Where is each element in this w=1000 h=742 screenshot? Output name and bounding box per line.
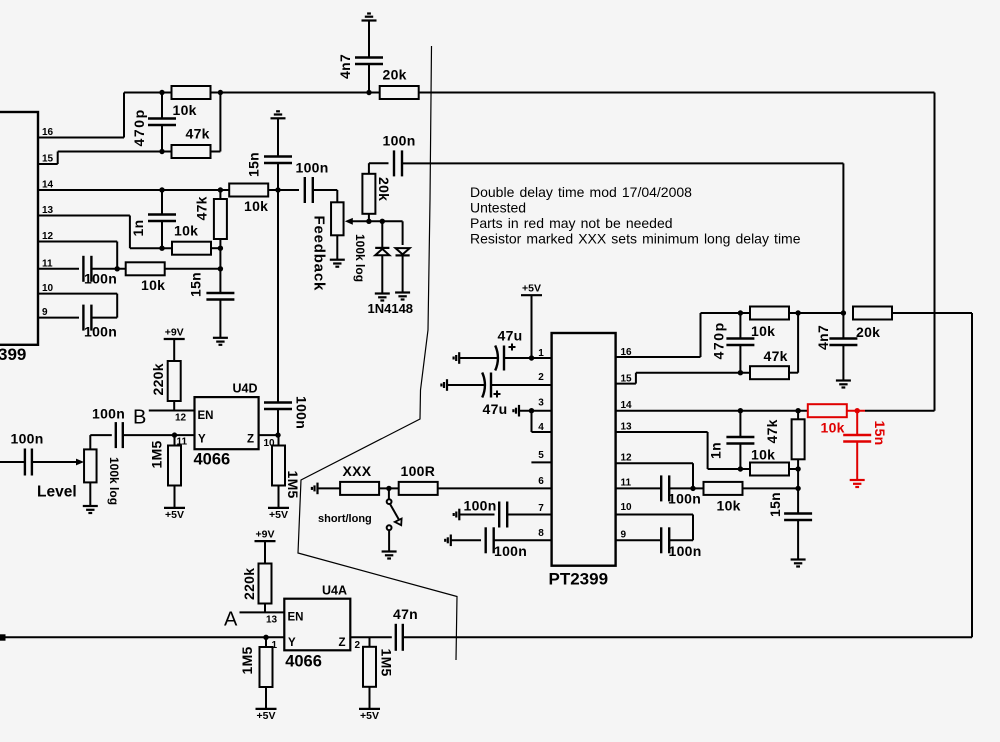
junction 470p bottom right <box>738 370 743 375</box>
svg-text:15n: 15n <box>188 272 204 297</box>
pin label 5 (U1) <box>538 450 544 461</box>
junction 47k bottom / 10k row13 <box>218 246 223 251</box>
svg-text:Z: Z <box>247 434 254 446</box>
svg-text:399: 399 <box>0 345 26 364</box>
capacitor 470p (right) <box>726 339 754 346</box>
capacitor 15n (left column) <box>206 293 234 300</box>
wire diode top row <box>369 221 403 245</box>
wire 1M5 U4D-left stem <box>174 435 176 446</box>
svg-text:15n: 15n <box>767 492 783 517</box>
svg-text:12: 12 <box>175 413 187 424</box>
wire 1M5 U4A-left stem2 <box>265 687 267 709</box>
svg-text:+9V: +9V <box>256 529 275 541</box>
ground pin7 <box>454 509 460 521</box>
wire 470p right stem2 <box>739 345 741 373</box>
power +5V (U4A left) <box>256 709 277 722</box>
wire pin6 <box>438 487 552 489</box>
capacitor 100n (pin9 right) <box>661 527 669 553</box>
svg-text:100n: 100n <box>11 431 44 447</box>
resistor 100R <box>399 463 438 495</box>
ground input pin2 <box>441 379 447 391</box>
wire level pot bottom <box>89 482 91 506</box>
freehand divider line <box>298 46 457 660</box>
svg-text:13: 13 <box>621 422 633 433</box>
svg-text:15n: 15n <box>872 421 888 446</box>
svg-text:Double delay time mod 17/04/20: Double delay time mod 17/04/2008 <box>470 184 692 200</box>
svg-text:15: 15 <box>42 154 54 165</box>
capacitor 100n (pin9 left) <box>83 305 91 331</box>
wire 1M5 U4A-left stem <box>265 637 267 647</box>
label 47u pin2 <box>483 401 508 417</box>
svg-text:10k: 10k <box>141 277 165 293</box>
svg-text:short/long: short/long <box>318 513 372 525</box>
svg-text:Level: Level <box>37 484 77 501</box>
ground 4n7 right <box>836 381 851 388</box>
IC U3 PT2399 partial body <box>0 112 38 345</box>
capacitor 100n (pin8) <box>486 527 494 553</box>
svg-text:10: 10 <box>42 283 54 294</box>
svg-text:1M5: 1M5 <box>149 440 165 468</box>
wire 15n stem top <box>219 269 221 293</box>
wire 10k row488 right <box>743 487 799 489</box>
svg-text:7: 7 <box>538 503 544 514</box>
svg-text:2: 2 <box>538 372 544 383</box>
junction Y/1M5 <box>172 432 177 437</box>
wire 4n7 stem bottom <box>368 64 370 93</box>
resistor 1M5 (U4D left) <box>149 440 182 485</box>
wire 20k stem bottom <box>368 214 370 222</box>
junction Y/1M5 U4A <box>263 635 268 640</box>
junction pin12/cap/10k <box>115 266 120 271</box>
pin label 16 (U1) <box>621 347 633 358</box>
wire pin8 a <box>451 539 481 541</box>
switch short/long <box>387 499 402 530</box>
power +5V (PT2399) <box>521 283 542 296</box>
wire 4n7 right stem <box>842 313 844 339</box>
wire 470p stem bottom <box>161 125 163 152</box>
svg-text:U4D: U4D <box>233 382 258 396</box>
wire pin1 b <box>504 357 552 359</box>
wire 4n7 right stem2 <box>842 345 844 381</box>
wire feedback vertical <box>277 163 279 190</box>
label 100n pin7 <box>464 498 497 514</box>
wire cap to Y pin <box>123 434 194 436</box>
junction wiper/20k/diodes <box>366 219 371 224</box>
svg-text:20k: 20k <box>383 67 407 83</box>
svg-text:100R: 100R <box>401 463 436 479</box>
junction Z/100n/1M5 <box>275 432 280 437</box>
wire pin5 stub <box>531 461 551 463</box>
svg-text:20k: 20k <box>376 177 392 201</box>
pin label 9 (U3) <box>42 307 48 318</box>
capacitor 15n (feedback series) <box>264 157 292 164</box>
resistor 20k (right) <box>853 307 892 341</box>
ground input pin1 <box>454 352 460 364</box>
wire +9V stem <box>173 339 175 361</box>
wire pin9 U3 <box>38 317 79 319</box>
svg-text:Y: Y <box>288 637 296 649</box>
power +9V (U4D) <box>164 327 185 340</box>
power +5V (U4D right) <box>268 508 289 521</box>
svg-text:PT2399: PT2399 <box>549 570 609 589</box>
label Feedback <box>311 216 328 292</box>
resistor 10k (row11 left) <box>126 262 166 293</box>
wire level pot top <box>90 435 112 449</box>
svg-text:14: 14 <box>621 400 633 411</box>
pin label 13 (U4A) <box>266 615 278 626</box>
IC U4D 4066 <box>195 397 259 449</box>
wire 1M5 U4D-right stem <box>278 435 280 446</box>
resistor 10k (right top) <box>750 307 789 340</box>
wire pin15 U1 <box>616 373 750 384</box>
diode D1 1N4148 (anode down) <box>375 248 389 255</box>
svg-text:8: 8 <box>538 528 544 539</box>
ground switch <box>382 552 397 559</box>
capacitor 470p (left block) <box>148 119 176 126</box>
svg-text:47u: 47u <box>483 401 508 417</box>
label 15n left column <box>188 272 204 297</box>
diode D2 1N4148 (anode up) <box>396 248 410 255</box>
wire 1M5 U4A-right stem2 <box>369 687 371 709</box>
svg-text:100n: 100n <box>494 543 527 559</box>
svg-text:Resistor marked XXX sets minim: Resistor marked XXX sets minimum long de… <box>470 231 801 247</box>
wire 15n stem bottom <box>219 300 221 338</box>
wire top row right <box>418 93 934 411</box>
resistor 20k vertical (feedback) <box>362 174 392 214</box>
wire row14 a <box>269 189 300 191</box>
resistor 20k (top) <box>380 67 419 100</box>
power +5V (U4D left) <box>164 508 185 521</box>
svg-text:100k log: 100k log <box>107 457 121 505</box>
wire level input <box>0 461 24 463</box>
wire pin13 U1 <box>616 432 750 469</box>
power +9V (U4A) <box>255 529 276 542</box>
wire 47k vert right stem <box>797 411 799 420</box>
svg-text:10k: 10k <box>717 498 741 514</box>
svg-text:1N4148: 1N4148 <box>368 301 414 316</box>
wire cap pin9 right <box>670 539 693 541</box>
svg-text:4n7: 4n7 <box>337 54 353 79</box>
resistor 1M5 (U4D right) <box>272 446 285 486</box>
wire top row left <box>124 92 380 94</box>
label 470p <box>131 108 147 146</box>
wire switch stem <box>388 488 390 499</box>
svg-text:4066: 4066 <box>194 451 231 469</box>
svg-text:12: 12 <box>42 231 54 242</box>
svg-text:3: 3 <box>538 398 544 409</box>
pin label 2 (U4A) <box>355 640 361 651</box>
pin label 13 (U1) <box>621 422 633 433</box>
wire 47k right up <box>790 313 799 373</box>
wire 470p stem top <box>161 93 163 119</box>
resistor XXX <box>340 463 379 495</box>
wire pin2 a <box>447 384 484 386</box>
svg-text:5: 5 <box>538 450 544 461</box>
svg-text:15: 15 <box>621 374 633 385</box>
wire 47k vert stem top <box>219 190 221 199</box>
pin label 11 (U1) <box>621 478 632 489</box>
junction 4n7 right <box>841 310 846 315</box>
svg-text:+5V: +5V <box>360 710 379 722</box>
wire 1M5 U4D-left stem2 <box>174 485 176 508</box>
resistor 10k (row488 right) <box>704 482 743 514</box>
svg-text:10k: 10k <box>821 420 845 436</box>
wiper arrow level <box>76 459 84 466</box>
svg-text:2: 2 <box>355 640 361 651</box>
junction 10k/47k right column top <box>218 90 223 95</box>
label U4D <box>233 382 258 396</box>
svg-text:100n: 100n <box>383 133 416 149</box>
wire 1M5 U4A-right stem <box>369 637 371 647</box>
wire pin14 row <box>38 189 229 191</box>
wire row313 b <box>790 312 844 314</box>
nub left edge <box>0 634 6 640</box>
wire Z row to frame <box>403 636 972 638</box>
resistor 10k (row14) <box>229 184 268 215</box>
label 15n right <box>767 492 783 517</box>
wire pin13 U3 <box>38 216 171 249</box>
svg-text:Feedback: Feedback <box>311 216 328 292</box>
wire A to EN <box>240 611 285 613</box>
junction pin12 cap right <box>690 486 695 491</box>
label 100n B path <box>92 406 125 422</box>
svg-text:Y: Y <box>198 434 206 446</box>
capacitor 100n (row163) <box>394 150 402 176</box>
svg-text:1n: 1n <box>708 442 724 459</box>
svg-text:100n: 100n <box>84 324 117 340</box>
wire 1n stem bottom <box>161 221 163 248</box>
junction 47k vert top right <box>795 408 800 413</box>
junction row11 right <box>218 266 223 271</box>
wire 47k row <box>162 151 171 153</box>
wire 15n right stem <box>797 520 799 560</box>
junction 1n top right <box>738 408 743 413</box>
svg-text:47n: 47n <box>393 606 418 622</box>
junction 1n bottom <box>159 246 164 251</box>
wire Z row U4A <box>350 636 392 638</box>
junction 4n7 top-left <box>366 90 371 95</box>
ground XXX input <box>312 483 318 495</box>
label short/long <box>318 513 372 525</box>
svg-text:11: 11 <box>42 258 53 269</box>
ground 15n right <box>791 560 806 567</box>
label 100k log feedback <box>353 234 367 282</box>
svg-text:11: 11 <box>621 478 632 489</box>
svg-text:100n: 100n <box>84 271 117 287</box>
wire pin14 U1 <box>616 410 808 412</box>
IC U4A 4066 <box>284 599 350 651</box>
capacitor 47u (pin1) <box>495 344 515 371</box>
label 100n row163 <box>383 133 416 149</box>
wire 10k row13 right <box>212 247 220 249</box>
label 100n feedback <box>294 396 310 429</box>
svg-text:U4A: U4A <box>322 584 347 598</box>
resistor 10k (row469 right) <box>750 447 789 476</box>
ground 15n left column <box>213 338 228 345</box>
pin label 15 (U3) <box>42 154 54 165</box>
wire pin9 U1 <box>616 539 661 541</box>
capacitor 100n (feedback series h) <box>305 177 313 203</box>
label 1N4148 <box>368 301 414 316</box>
wire pin12 U1 <box>616 463 693 488</box>
junction 47k vertical top <box>218 187 223 192</box>
svg-text:15n: 15n <box>246 152 262 177</box>
pin label 1 (U1) <box>538 348 544 359</box>
wire 4n7 stem top <box>368 21 370 58</box>
label 15n feedback <box>246 152 262 177</box>
svg-text:100n: 100n <box>668 491 701 507</box>
wire feedback gnd stem <box>277 118 279 156</box>
capacitor 100n (pin11 left) <box>83 256 91 282</box>
wire pin7 a <box>459 514 494 516</box>
wire XXX to 100R <box>379 487 399 489</box>
pin label 13 (U3) <box>42 205 54 216</box>
svg-text:1n: 1n <box>130 220 146 237</box>
ground above 15n feedback <box>271 111 286 118</box>
svg-text:14: 14 <box>42 180 54 191</box>
wire level to pot <box>32 461 77 463</box>
capacitor 15n (right) <box>784 514 812 521</box>
svg-text:470p: 470p <box>711 321 727 359</box>
svg-text:6: 6 <box>538 476 544 487</box>
svg-text:16: 16 <box>42 127 54 138</box>
label 100n row14 <box>296 160 329 176</box>
wire 10k row11 right <box>165 268 220 270</box>
svg-text:47u: 47u <box>498 328 523 344</box>
wire pin16 U3 <box>38 93 124 138</box>
wire pin2 b <box>491 384 552 386</box>
power +5V (U4A right) <box>359 709 380 722</box>
ground level pot <box>83 506 98 513</box>
wire 220k to EN <box>173 401 175 411</box>
wire right diode bottom <box>402 255 404 292</box>
svg-text:Untested: Untested <box>470 200 526 216</box>
svg-text:47k: 47k <box>186 126 210 142</box>
svg-text:10k: 10k <box>244 198 268 214</box>
svg-text:10k: 10k <box>751 323 775 339</box>
wiper arrow feedback <box>345 218 369 225</box>
svg-text:9: 9 <box>42 307 48 318</box>
capacitor 4n7 (right) <box>829 339 857 346</box>
wire red node to frame <box>865 410 935 412</box>
svg-text:9: 9 <box>621 530 627 541</box>
svg-text:16: 16 <box>621 347 633 358</box>
ground feedback pot <box>330 260 345 267</box>
svg-text:470p: 470p <box>131 108 147 146</box>
capacitor 47u (pin2) <box>482 373 500 398</box>
label 470p right <box>711 321 727 359</box>
wire pin10 U1 <box>616 515 693 541</box>
wire 100n to 10k row11 <box>92 268 126 270</box>
capacitor 100n (level in) <box>25 449 32 476</box>
label 4n7 right <box>815 325 831 350</box>
label 100n pin9 right <box>669 543 702 559</box>
pin label 15 (U1) <box>621 374 633 385</box>
label 100n pin9 left <box>84 324 117 340</box>
wire pin12 U3 <box>38 242 117 269</box>
capacitor 1n (left) <box>148 215 176 222</box>
wire pin7 b <box>508 514 552 516</box>
wire pin11 U3 <box>38 268 79 270</box>
wire B to EN <box>149 410 195 412</box>
wire pin10 U3 <box>38 294 117 318</box>
capacitor 100n (B path) <box>116 422 123 448</box>
note text <box>470 184 801 247</box>
wire pin3 to pin4 <box>532 411 552 432</box>
label 1n right <box>708 442 724 459</box>
resistor 47k vertical (left) <box>194 196 227 239</box>
svg-text:47k: 47k <box>194 196 210 220</box>
wire Z to node <box>259 434 278 436</box>
resistor 47k (right top) <box>750 348 789 379</box>
junction 470p bottom <box>159 149 164 154</box>
svg-text:+5V: +5V <box>522 283 541 295</box>
pin label 9 (U1) <box>621 530 627 541</box>
wire 1n right stem2 <box>739 444 741 470</box>
pin label 11 (U4D) <box>177 437 188 448</box>
wire row163 to right <box>403 163 844 313</box>
wire row14 b <box>314 190 338 202</box>
junction left diode <box>380 219 385 224</box>
wire feedback to Z node <box>277 409 279 435</box>
svg-text:+5V: +5V <box>269 509 288 521</box>
svg-text:XXX: XXX <box>343 463 372 479</box>
label A <box>224 609 238 631</box>
resistor 47k vertical (right) <box>764 419 805 459</box>
label 15n red <box>872 421 888 446</box>
label 100n pin8 <box>494 543 527 559</box>
pin label 1 (U4A) <box>272 640 278 651</box>
svg-text:Z: Z <box>339 637 346 649</box>
resistor 220k (U4D) <box>150 361 181 401</box>
label 100n pin11 right <box>668 491 701 507</box>
wire red cap stem2 <box>856 442 858 481</box>
ground right diode <box>395 293 410 300</box>
resistor 220k (U4A) <box>241 564 272 604</box>
pin label 6 (U1) <box>538 476 544 487</box>
wire feedback pot bottom <box>336 235 338 259</box>
wire pin16 U1 <box>616 313 741 357</box>
capacitor 15n RED <box>843 435 871 442</box>
svg-text:10k: 10k <box>751 447 775 463</box>
wire pin1 a <box>459 357 497 359</box>
svg-text:Parts in red may not be needed: Parts in red may not be needed <box>470 215 673 231</box>
label U4A <box>322 584 347 598</box>
wire Y row U4A <box>0 636 284 638</box>
svg-text:1M5: 1M5 <box>239 646 255 674</box>
wire 1n right stem <box>739 411 741 437</box>
wire +9V U4A stem <box>264 541 266 563</box>
capacitor 100n (feedback to U4D) <box>264 403 292 410</box>
potentiometer Feedback 100k log <box>331 202 344 235</box>
pin label 11 (U3) <box>42 258 53 269</box>
svg-text:10: 10 <box>621 502 633 513</box>
label 47u pin1 <box>498 328 523 344</box>
wire row313 a <box>740 312 749 314</box>
svg-text:220k: 220k <box>150 363 166 395</box>
svg-text:+5V: +5V <box>165 509 184 521</box>
svg-text:A: A <box>224 609 238 631</box>
svg-text:+9V: +9V <box>165 327 184 339</box>
wire 100n pin9 right <box>92 317 118 319</box>
pin label 3 (U1) <box>538 398 544 409</box>
ground pin8 <box>445 535 451 547</box>
label 47n <box>393 606 418 622</box>
wire pin15 U3 <box>38 152 162 165</box>
wire XXX a <box>318 487 341 489</box>
svg-text:4066: 4066 <box>285 653 322 671</box>
junction switch node <box>386 486 391 491</box>
